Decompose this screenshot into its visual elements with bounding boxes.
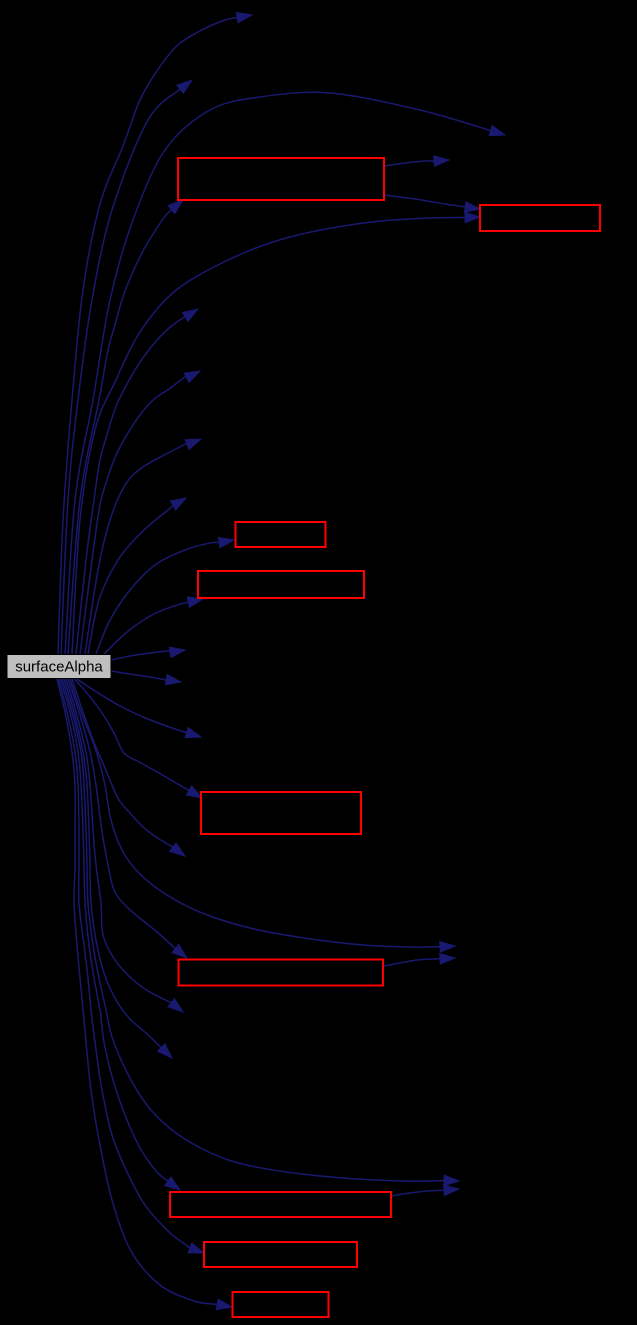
- wire E12: [104, 602, 188, 654]
- wire E9: [85, 443, 189, 654]
- wire E25: [391, 1190, 444, 1196]
- wire E3: [65, 92, 491, 654]
- wire E26: [59, 679, 190, 1248]
- node B8: [204, 1242, 357, 1267]
- node B7: [170, 1192, 391, 1217]
- wire E11: [96, 542, 219, 654]
- node B2: [480, 205, 600, 231]
- wire E22: [64, 679, 161, 1048]
- wire E18: [70, 679, 440, 947]
- wire E10: [88, 506, 173, 655]
- node B9: [233, 1292, 329, 1317]
- wire E1: [58, 18, 237, 654]
- wire E14: [111, 671, 167, 680]
- wire E20: [383, 959, 440, 966]
- wire E8: [80, 376, 187, 654]
- wire E15: [77, 679, 187, 733]
- wire E7: [76, 315, 187, 654]
- wire E24: [60, 679, 168, 1181]
- node B5: [201, 792, 361, 834]
- node B1: [178, 158, 384, 200]
- wire E19: [68, 679, 175, 949]
- node B6: [179, 960, 384, 986]
- svg-text:surfaceAlpha: surfaceAlpha: [15, 659, 103, 676]
- wire E13: [111, 651, 170, 660]
- node surfaceAlpha: [7, 655, 111, 679]
- wire E23: [62, 679, 444, 1181]
- wire E6b: [72, 218, 465, 655]
- wire E6a: [384, 195, 465, 207]
- node B4: [198, 571, 364, 598]
- wire E21: [66, 679, 171, 1003]
- wire E5: [384, 161, 434, 166]
- wire E17: [72, 679, 173, 847]
- wire E16: [75, 679, 190, 791]
- wire E2: [61, 89, 180, 654]
- wire E27: [57, 679, 217, 1304]
- wire E4: [68, 210, 172, 654]
- node B3: [236, 522, 326, 547]
